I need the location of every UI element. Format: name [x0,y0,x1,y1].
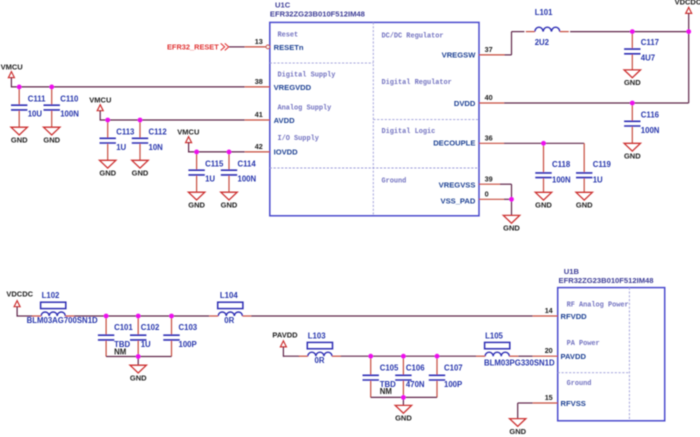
svg-text:GND: GND [99,169,116,178]
svg-text:C106: C106 [406,364,425,373]
svg-text:GND: GND [130,373,147,382]
svg-text:4U7: 4U7 [641,53,655,62]
svg-text:GND: GND [43,135,60,144]
svg-text:DECOUPLE: DECOUPLE [433,139,475,148]
svg-text:GND: GND [535,201,552,210]
svg-text:C105: C105 [380,364,399,373]
svg-text:GND: GND [11,135,28,144]
svg-text:RF Analog Power: RF Analog Power [567,302,629,310]
svg-text:VMCU: VMCU [89,96,111,105]
svg-text:Ground: Ground [382,178,407,186]
svg-text:IOVDD: IOVDD [274,147,299,156]
svg-text:C115: C115 [205,160,224,169]
svg-text:C117: C117 [641,38,659,47]
svg-text:1U: 1U [593,175,603,184]
svg-text:GND: GND [395,414,412,423]
svg-text:13: 13 [255,37,263,46]
svg-text:GND: GND [509,427,526,436]
svg-text:VMCU: VMCU [177,128,199,137]
svg-text:PAVDD: PAVDD [272,331,298,340]
svg-text:40: 40 [485,93,493,102]
svg-text:100N: 100N [641,126,660,135]
svg-text:C112: C112 [149,128,168,137]
svg-text:L102: L102 [42,291,60,300]
svg-text:20: 20 [545,346,553,355]
svg-text:Digital Regulator: Digital Regulator [382,79,452,87]
svg-text:Reset: Reset [278,32,299,40]
svg-text:C103: C103 [179,323,198,332]
svg-text:C113: C113 [116,128,135,137]
svg-text:GND: GND [188,200,205,209]
svg-text:C119: C119 [593,160,612,169]
svg-text:15: 15 [545,393,553,402]
svg-text:VREGVSS: VREGVSS [439,180,476,189]
svg-text:10U: 10U [28,110,43,119]
svg-text:Digital Logic: Digital Logic [382,128,436,136]
svg-text:EFR32_RESET: EFR32_RESET [167,42,219,51]
svg-text:GND: GND [576,201,593,210]
svg-text:C110: C110 [60,95,79,104]
svg-text:GND: GND [221,200,238,209]
svg-text:100N: 100N [238,175,257,184]
svg-text:VDCDC: VDCDC [6,290,33,299]
svg-text:1U: 1U [205,175,215,184]
svg-text:DVDD: DVDD [454,99,476,108]
svg-text:VDCDC: VDCDC [675,0,700,6]
svg-text:BLM03PG330SN1D: BLM03PG330SN1D [484,359,555,368]
svg-text:EFR32ZG23B010F512IM48: EFR32ZG23B010F512IM48 [270,9,365,18]
svg-text:AVDD: AVDD [274,116,295,125]
svg-text:1U: 1U [141,340,151,349]
svg-text:C114: C114 [238,160,257,169]
svg-text:C107: C107 [444,364,463,373]
svg-text:36: 36 [485,133,493,142]
svg-text:GND: GND [624,78,641,87]
svg-text:RESETn: RESETn [274,43,304,52]
svg-text:L101: L101 [535,8,553,17]
svg-text:Ground: Ground [567,380,592,388]
svg-text:37: 37 [485,45,493,54]
svg-text:Digital Supply: Digital Supply [278,72,336,80]
svg-text:GND: GND [132,169,149,178]
svg-text:C116: C116 [641,111,660,120]
svg-text:VREGVDD: VREGVDD [274,83,312,92]
svg-text:2U2: 2U2 [535,38,550,47]
svg-text:GND: GND [624,152,641,161]
svg-text:PAVDD: PAVDD [561,352,587,361]
svg-text:1U: 1U [116,143,126,152]
svg-text:DC/DC Regulator: DC/DC Regulator [382,32,444,40]
svg-text:RFVSS: RFVSS [561,399,586,408]
svg-text:100N: 100N [552,175,571,184]
svg-text:10N: 10N [149,143,164,152]
svg-text:42: 42 [255,142,263,151]
svg-text:100N: 100N [60,110,79,119]
svg-text:C102: C102 [141,323,160,332]
svg-text:Analog Supply: Analog Supply [278,104,332,112]
svg-text:100P: 100P [179,340,197,349]
svg-text:RFVDD: RFVDD [561,312,588,321]
svg-text:L104: L104 [220,291,238,300]
svg-text:U1C: U1C [275,1,291,10]
svg-text:100P: 100P [444,380,462,389]
svg-text:38: 38 [255,77,263,86]
svg-text:470N: 470N [406,380,425,389]
svg-text:BLM03AG700SN1D: BLM03AG700SN1D [27,316,98,325]
svg-text:L105: L105 [485,332,503,341]
svg-text:0R: 0R [224,316,234,325]
svg-text:14: 14 [545,306,553,315]
svg-text:0R: 0R [315,356,325,365]
svg-text:PA Power: PA Power [567,340,600,348]
svg-text:C111: C111 [28,95,46,104]
svg-text:0: 0 [485,189,489,198]
svg-text:VREGSW: VREGSW [442,51,477,60]
svg-text:41: 41 [255,110,263,119]
svg-text:GND: GND [503,224,520,233]
svg-text:C101: C101 [114,323,133,332]
svg-text:VSS_PAD: VSS_PAD [441,197,476,206]
svg-text:NM: NM [380,387,392,396]
svg-text:L103: L103 [308,332,326,341]
svg-text:NM: NM [114,347,126,356]
svg-text:VMCU: VMCU [1,63,23,72]
svg-text:39: 39 [485,174,493,183]
svg-text:EFR32ZG23B010F512IM48: EFR32ZG23B010F512IM48 [559,276,654,285]
svg-text:C118: C118 [552,160,571,169]
svg-text:I/O Supply: I/O Supply [278,135,319,143]
